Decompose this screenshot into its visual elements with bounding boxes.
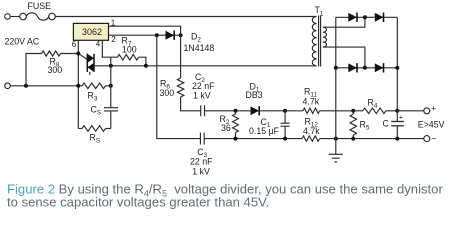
node R5 top [351,109,355,113]
resistor R7 100 [118,36,146,66]
svg-text:6: 6 [72,40,77,49]
node C top [395,109,399,113]
svg-text:1N4148: 1N4148 [184,43,215,53]
resistor R8 300 [42,51,79,75]
fuse FUSE [20,1,56,20]
node bridge right bottom [395,66,399,70]
wire pin 2 to D2 anode [109,34,157,36]
diode D1 DB3 [246,82,286,116]
resistor R3 [82,83,111,103]
svg-text:−: − [431,133,436,143]
svg-text:+: + [399,113,404,122]
wire dynistor gate to mid rail [94,65,111,67]
pin 1 label [111,19,116,28]
node bridge left bottom [334,66,338,70]
wire to plus terminal [397,110,424,112]
node R7 to mid line junction [144,64,148,68]
diode bridge top-right [375,13,384,22]
svg-text:22 nF: 22 nF [192,81,215,91]
wire secondary bottom tap [323,47,365,68]
svg-text:2: 2 [111,35,116,44]
node junction R8 corner on AC line [24,84,28,88]
svg-text:to sense capacitor voltages gr: to sense capacitor voltages greater than… [7,195,269,210]
wire pin 6 down / left rail [77,40,79,128]
caption figure 2 [7,182,443,210]
svg-text:300: 300 [48,65,63,75]
terminal output plus [424,103,436,114]
wire R8 left leg [26,54,42,86]
node R5 bottom [351,137,355,141]
svg-text:3062: 3062 [82,27,102,37]
label 220V AC [5,37,40,47]
wire upper rail C1 to R11 [285,110,303,112]
node R2 bottom [234,137,238,141]
pin 4 label [96,40,101,49]
node bridge bottom mid [363,66,367,70]
wire secondary top tap [323,17,365,27]
label E>45V [418,119,445,129]
node C bottom [395,137,399,141]
dynistor (optotriac output) [79,54,94,75]
terminal 220V AC line 1 (top-left) [5,14,20,20]
wire upper rail C2 to R2 [205,110,251,112]
ground [329,139,343,162]
capacitor C (output) [383,111,404,139]
pin 6 label [72,40,77,49]
capacitor C2 22nF 1kV [192,72,215,116]
wire lower rail C3 to R12 [204,138,302,140]
svg-text:1 kV: 1 kV [193,91,211,101]
node C1 bottom [283,137,287,141]
svg-text:220V AC: 220V AC [5,37,40,47]
wire D2 anode down to lower rail [157,35,201,138]
resistor R6 300 [160,35,201,111]
svg-text:DB3: DB3 [246,90,263,100]
resistor R12 4.7k [302,117,424,142]
resistor R4 [353,98,397,114]
resistor R2 36 [220,111,239,139]
svg-text:E>45V: E>45V [418,119,445,129]
capacitor C3 22nF 1kV [190,133,213,177]
diode D2 1N4148 [157,31,215,53]
node ground junction [334,137,338,141]
resistor R11 4.7k [303,87,354,114]
wire bridge right vertical [396,17,398,111]
wire pin 4 to R7 [102,40,117,57]
node AC line / right rail junction [109,84,113,88]
pin 2 label [111,35,116,44]
diode bridge top-left [348,13,357,22]
svg-text:C: C [383,118,390,128]
svg-text:36: 36 [221,123,231,133]
svg-text:4.7k: 4.7k [303,97,320,107]
wire bridge bottom row [336,67,398,69]
capacitor C1 0.15uF [249,111,290,139]
node bridge top mid [363,15,367,19]
node C1 top [283,109,287,113]
capacitor CS [91,105,119,117]
wire right sense rail lower [110,111,112,129]
node pin 6 junction [76,52,80,56]
diode bridge bottom-right [375,63,384,72]
svg-text:4.7k: 4.7k [303,126,320,136]
svg-text:300: 300 [160,88,175,98]
node AC line / left rail junction [76,84,80,88]
wire fuse to transformer primary top [55,16,316,18]
svg-text:22 nF: 22 nF [190,157,213,167]
op-amp U1 optocoupler 3062 box [73,23,108,40]
svg-text:FUSE: FUSE [28,1,52,11]
terminal 220V AC line 2 (left) [5,83,82,89]
resistor R5 [350,111,370,139]
wire right sense rail upper [110,57,112,107]
transformer T1 [312,5,326,66]
node D2 cathode [179,33,183,37]
svg-text:1 kV: 1 kV [192,166,210,176]
terminal output minus [424,133,437,143]
wire pin 1 to D2 cathode [109,26,181,35]
svg-text:100: 100 [122,45,137,55]
node D2 anode [155,33,159,37]
svg-text:+: + [431,103,436,113]
diode bridge bottom-left [348,63,357,72]
node R2 top [234,109,238,113]
node mid-rail junction [109,64,113,68]
svg-text:0.15 μF: 0.15 μF [249,126,280,136]
svg-text:4: 4 [96,40,101,49]
resistor RS [78,126,111,145]
wire bridge left vertical [335,17,337,138]
wire bridge top row [336,16,398,18]
wire mid line to transformer primary bottom [111,65,317,67]
